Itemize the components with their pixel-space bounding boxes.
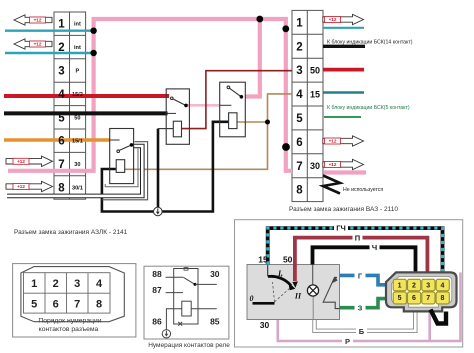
svg-text:1: 1	[398, 282, 402, 289]
svg-text:2: 2	[58, 42, 64, 54]
ignition switch gray body	[247, 265, 340, 320]
dashed position lines	[273, 282, 275, 302]
connector shell ВАЗ-2110 plug	[386, 272, 457, 311]
svg-text:0: 0	[250, 294, 254, 303]
+12 arrow left pin2	[14, 39, 52, 49]
wire cyan int pin1	[5, 30, 91, 32]
wire ГЧ striped: 15 terminal over top to connector pin4	[268, 228, 443, 272]
wire pink stub right of pin7 ВАЗ	[324, 170, 366, 174]
wire +12 pink bus: left pin7 across top to right connector pin7	[8, 19, 292, 171]
svg-text:15/1: 15/1	[72, 139, 83, 145]
junction dot top bus relay branch	[256, 16, 263, 23]
+12 arrow left pin8	[6, 181, 53, 191]
connector pin numbers	[398, 282, 445, 302]
+12 arrow right pin6	[323, 136, 364, 146]
svg-text:6: 6	[53, 298, 59, 310]
+12 arrow right pin7	[323, 159, 364, 169]
svg-text:6: 6	[412, 295, 416, 302]
box ignition switch ВАЗ-2110 internals	[235, 220, 463, 347]
label П	[353, 233, 363, 242]
x mark on relay outline	[178, 322, 182, 326]
svg-text:3: 3	[58, 66, 64, 78]
svg-text:+12: +12	[34, 18, 42, 23]
svg-text:Нумерация контактов реле: Нумерация контактов реле	[148, 342, 230, 349]
wire Б white double: lamp to connector bottom	[315, 311, 416, 331]
connector pins 1-8 yellow	[393, 279, 449, 304]
left table pin labels	[72, 22, 83, 192]
junction dot relay arm	[194, 283, 197, 286]
svg-text:8: 8	[441, 295, 445, 302]
wire Г blue to connector	[340, 275, 390, 284]
svg-text:+12: +12	[329, 17, 337, 22]
relay K3	[110, 129, 134, 184]
svg-text:30: 30	[260, 320, 270, 330]
svg-text:30: 30	[210, 269, 220, 279]
svg-text:З: З	[358, 304, 363, 313]
relay outline	[174, 269, 198, 325]
wire maroon 50-net: relay K1 coil to ВАЗ pin3	[182, 71, 293, 129]
wire black 50 pin5 to relay K1	[4, 111, 168, 115]
labels 88 30 87 86 85	[152, 269, 220, 327]
svg-text:К блоку индикации БСК(5 контак: К блоку индикации БСК(5 контакт)	[327, 105, 410, 111]
svg-text:1: 1	[58, 19, 65, 31]
svg-text:5: 5	[31, 298, 37, 310]
svg-text:П: П	[355, 233, 360, 242]
connector housing octagon	[21, 267, 124, 322]
zigzag not-used pin8 ВАЗ	[323, 176, 340, 194]
wire thin loop around relay K3	[105, 149, 138, 187]
svg-text:+12: +12	[17, 184, 25, 189]
junction dot relay K2 arm	[240, 95, 244, 99]
svg-text:6: 6	[296, 137, 302, 149]
wire black stub below connector	[431, 310, 447, 324]
pin 86 line to ground	[166, 309, 181, 330]
svg-text:30: 30	[74, 162, 80, 168]
svg-text:8: 8	[58, 183, 65, 195]
numbering grid 2x4	[24, 273, 111, 313]
wire ground bus black with relay coil returns	[102, 122, 229, 212]
svg-text:Ч: Ч	[372, 243, 377, 252]
ground symbol relay	[162, 330, 170, 338]
wire Ч black: lamp over top to connector pin2	[313, 247, 416, 272]
relay K1	[166, 89, 189, 144]
svg-text:int: int	[74, 22, 81, 28]
svg-text:7: 7	[296, 161, 302, 173]
svg-text:15/2: 15/2	[72, 92, 83, 98]
svg-text:I,: I,	[277, 269, 283, 278]
wire Р pink: 30 terminal around bottom to connector	[278, 273, 461, 342]
label Б	[356, 327, 367, 335]
grid numbers 1-8	[31, 278, 103, 310]
svg-text:К блоку индикации БСК(14 конта: К блоку индикации БСК(14 контакт)	[327, 40, 413, 46]
right table pin numbers	[296, 17, 303, 196]
wire black to БСК 14 pin2 ВАЗ	[323, 45, 365, 48]
svg-text:3: 3	[426, 282, 430, 289]
svg-text:3: 3	[74, 278, 80, 290]
svg-text:контактов разъема: контактов разъема	[39, 326, 99, 333]
wire П dark red: 50 terminal over top to connector pin3	[295, 238, 428, 281]
+12 arrow left pin1	[14, 15, 52, 25]
svg-text:85: 85	[210, 316, 220, 326]
svg-text:4: 4	[441, 282, 445, 289]
svg-text:4: 4	[296, 89, 303, 101]
label З	[355, 304, 366, 312]
svg-text:6: 6	[58, 136, 64, 148]
svg-text:int: int	[74, 45, 81, 51]
junction dot pink bus pin1 int	[90, 28, 96, 34]
wire white 30/1 from pin8 to relay K3 arm	[7, 146, 142, 196]
svg-text:50: 50	[74, 115, 80, 121]
svg-text:5: 5	[58, 112, 65, 124]
pin 30 line	[195, 283, 217, 285]
svg-text:15: 15	[258, 255, 268, 265]
svg-text:II: II	[294, 292, 302, 301]
svg-text:Р: Р	[345, 337, 350, 346]
relay coil	[182, 301, 191, 316]
svg-text:1: 1	[31, 278, 37, 290]
svg-text:+12: +12	[329, 162, 337, 167]
junction dot right bus pin6	[282, 143, 290, 151]
svg-text:3: 3	[296, 65, 302, 77]
svg-text:30: 30	[310, 161, 320, 171]
box relay contact numbering	[144, 266, 229, 339]
pin 88 line	[166, 276, 184, 278]
connector table АЗЛК-2141 (left, pins 1-8)	[54, 12, 86, 199]
lamp symbol	[307, 285, 318, 296]
svg-text:Порядок нумерации: Порядок нумерации	[38, 318, 101, 325]
svg-text:Г: Г	[358, 271, 363, 280]
svg-text:4: 4	[58, 89, 65, 101]
svg-text:15: 15	[310, 89, 320, 99]
svg-text:50: 50	[283, 255, 293, 265]
right table pin values	[310, 65, 320, 171]
svg-text:88: 88	[152, 269, 162, 279]
wire relay K1 coil left thin	[158, 128, 173, 130]
relay arm	[183, 277, 195, 284]
left table pin numbers	[58, 19, 65, 195]
svg-text:1: 1	[296, 17, 303, 29]
svg-text:Разъем замка зажигания ВАЗ - 2: Разъем замка зажигания ВАЗ - 2110	[289, 206, 398, 213]
arrowhead 50 terminal	[292, 281, 298, 287]
relay top notch	[184, 268, 188, 271]
contact 0 thick line	[253, 302, 275, 305]
wire thin jumper ground to relay K3 upper contact	[102, 142, 148, 200]
connector table ВАЗ-2110 (right, pins 1-8)	[292, 10, 323, 201]
wire pink thin relay K1 arm to relay K2 contact	[186, 104, 220, 107]
junction dot tan net	[265, 120, 270, 125]
svg-text:7: 7	[74, 298, 80, 310]
svg-text:8: 8	[296, 185, 303, 197]
wire orange 15/1 pin6 to relay K3	[4, 138, 111, 141]
lamp leads	[312, 265, 314, 286]
svg-text:+12: +12	[34, 42, 42, 47]
switch rotation arc with arrowhead	[268, 276, 291, 285]
svg-text:ГЧ: ГЧ	[336, 224, 346, 233]
svg-text:4: 4	[96, 278, 103, 290]
svg-text:30/1: 30/1	[72, 186, 83, 192]
junction dot right bus pin1	[282, 25, 289, 32]
svg-text:86: 86	[152, 316, 162, 326]
wire pink branch top bus down to relay K2 arm	[245, 19, 260, 97]
label Г	[355, 271, 366, 279]
svg-text:50: 50	[310, 65, 320, 75]
svg-text:87: 87	[152, 285, 162, 295]
wire tan 15-net: relay K3 coil to ВАЗ pin4, branch relay K2 coil	[125, 94, 292, 169]
svg-text:5: 5	[398, 295, 402, 302]
svg-text:7: 7	[426, 295, 430, 302]
svg-text:P: P	[76, 69, 80, 75]
junction dot relay K1 arm	[184, 104, 188, 108]
box numbering of connector contacts	[13, 264, 136, 337]
+12 arrow right pin1	[323, 14, 364, 24]
switch inner lead 15	[267, 265, 269, 277]
ground symbol	[154, 207, 163, 216]
wire red 50 pin3 ВАЗ	[323, 68, 364, 72]
junction dot pink bus pin2 int	[90, 50, 96, 56]
svg-text:Б: Б	[359, 327, 365, 336]
svg-text:+12: +12	[17, 159, 25, 164]
svg-text:5: 5	[296, 113, 303, 125]
label ГЧ	[334, 224, 348, 233]
label Ч	[370, 243, 380, 252]
wire green to БСК 5 pin5 ВАЗ	[324, 116, 361, 118]
svg-text:2: 2	[53, 278, 59, 290]
svg-text:Разъем замка зажигания АЗЛК -: Разъем замка зажигания АЗЛК - 2141	[14, 229, 128, 236]
svg-text:Не используется: Не используется	[343, 187, 383, 193]
svg-text:+12: +12	[329, 139, 337, 144]
wire teal 15 pin4 ВАЗ	[323, 91, 364, 93]
contact plate to Г and З	[323, 277, 340, 308]
wire З green to connector	[340, 299, 390, 308]
svg-text:2: 2	[412, 282, 416, 289]
svg-text:8: 8	[96, 298, 102, 310]
pin 85 line	[191, 308, 217, 310]
wire cyan stub right pin1 ВАЗ	[323, 27, 364, 29]
svg-text:7: 7	[58, 159, 64, 171]
junction dot relay K3 arm	[130, 143, 134, 147]
pin 87 line	[166, 292, 184, 294]
svg-text:2: 2	[296, 41, 302, 53]
wire cyan int pin2	[5, 52, 91, 54]
label Р	[342, 337, 353, 345]
relay K2	[220, 82, 246, 137]
wire red 15/2 pin4 to relay K1	[4, 94, 169, 98]
+12 arrow left pin7	[6, 156, 53, 166]
